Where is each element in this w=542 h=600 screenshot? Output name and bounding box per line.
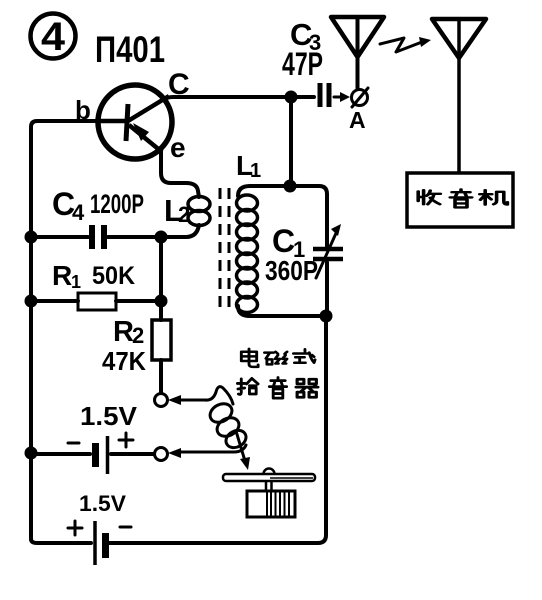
svg-text:C: C [272, 223, 295, 259]
battery B2 1.5V [95, 521, 106, 565]
transformer core dashes [220, 188, 229, 310]
node: L1 top junction dot [284, 180, 297, 193]
wire: junction down to L1 top junction [289, 97, 293, 186]
circled figure number 4 [31, 14, 76, 60]
wire: bottom wire left of battery B2 [31, 539, 91, 543]
minus sign B1 [68, 442, 79, 445]
svg-text:360P: 360P [265, 255, 318, 286]
wire: C1 bottom lead [325, 262, 329, 312]
label 收音机 in receiver box [418, 189, 507, 207]
char 收 [418, 190, 440, 204]
svg-text:R: R [52, 260, 72, 291]
pickup bottom lead arrow [168, 445, 246, 458]
receiver box 收音机 [407, 173, 513, 227]
wire: emitter down and over to L2 [161, 151, 199, 197]
switch terminal (open circle upper) [155, 394, 168, 407]
magnet box [247, 491, 295, 517]
svg-text:4: 4 [72, 200, 85, 225]
char 音 [269, 377, 286, 398]
wire: C3 left lead [291, 95, 314, 99]
inductor L2 [188, 197, 210, 226]
inductor L1 [237, 195, 258, 313]
spindle [266, 481, 272, 491]
transistor Q1 П401 [98, 85, 172, 159]
resistor R1 [31, 293, 161, 310]
node dot left rail at battery row [25, 447, 38, 460]
antenna 2 (receiving) [432, 19, 486, 173]
char 式 [293, 349, 315, 362]
char 拾 [237, 378, 258, 394]
capacitor C3 plates [318, 83, 323, 107]
svg-text:1.5V: 1.5V [79, 491, 126, 516]
char 磁 [264, 352, 287, 365]
variable capacitor C1 [313, 224, 343, 278]
wire: bottom wire right of battery B2 and right rail up to node [109, 318, 326, 543]
wire: C4 left lead [31, 235, 88, 239]
svg-text:50K: 50K [92, 262, 135, 290]
pivot bump [264, 469, 275, 474]
svg-text:П401: П401 [95, 29, 165, 70]
pickup coil [205, 387, 249, 451]
wire: R2 bottom lead [159, 360, 163, 393]
plus sign B1 [119, 433, 133, 447]
wire: base lead from left rail to transistor [31, 121, 98, 127]
svg-text:2: 2 [132, 323, 144, 348]
node dot left rail at R1 row [25, 295, 38, 308]
svg-text:A: A [349, 107, 366, 133]
node dot right of C4 row [155, 231, 168, 244]
terminal A (circle with slash) [352, 88, 369, 107]
wire: left rail [29, 127, 33, 539]
svg-text:1.5V: 1.5V [80, 401, 138, 431]
svg-text:47P: 47P [282, 46, 323, 82]
svg-text:b: b [75, 95, 91, 125]
node: bottom right junction dot [320, 310, 333, 323]
wire: L1 bottom wire to right node [238, 306, 326, 316]
minus sign B2 [120, 526, 131, 529]
arrow from C3 to terminal A [334, 92, 350, 102]
node dot left rail at C4 row [25, 231, 38, 244]
svg-text:1: 1 [250, 160, 261, 182]
svg-text:1200P: 1200P [90, 189, 144, 219]
char 电 [241, 349, 258, 367]
svg-text:R: R [113, 316, 134, 348]
battery B1 1.5V [31, 436, 153, 474]
capacitor C4 plates [92, 225, 104, 249]
char 音 [450, 189, 472, 207]
svg-text:4: 4 [41, 15, 66, 59]
wire: vertical between C4 node and R2 [159, 237, 163, 320]
char 器 [296, 379, 318, 397]
tone arm bar [223, 474, 315, 481]
pickup top lead arrow [168, 395, 206, 405]
switch terminal (open circle lower) [155, 448, 168, 461]
radio wave zigzag arrow [380, 37, 431, 52]
antenna 1 (transmitting) [331, 17, 384, 89]
svg-text:47K: 47K [102, 346, 146, 376]
stylus arrow [236, 431, 250, 470]
wire: collector to top wire [163, 97, 288, 100]
wire: L2 bottom to C4 node [108, 225, 199, 237]
node: C3 junction dot [285, 91, 298, 104]
svg-text:e: e [170, 132, 186, 163]
svg-text:1: 1 [71, 272, 81, 292]
resistor R2 [152, 320, 171, 360]
plus sign B2 [68, 521, 82, 535]
node dot right of R1 row [155, 295, 168, 308]
wire: L1 top wire to C1 branch [238, 186, 327, 247]
label 电磁式 [241, 349, 315, 367]
label 拾音器 [237, 377, 317, 398]
char 机 [480, 190, 508, 204]
svg-text:2: 2 [178, 202, 190, 227]
